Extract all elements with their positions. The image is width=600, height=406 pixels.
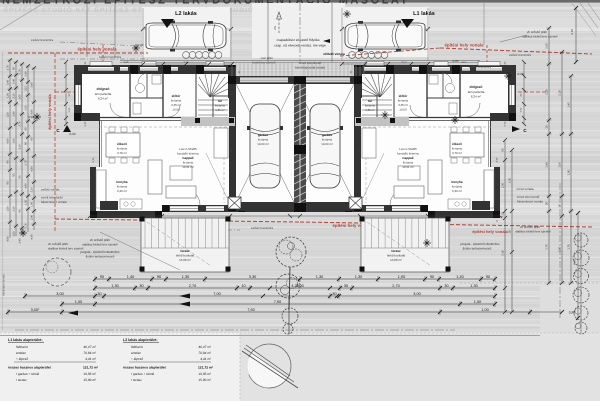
left vertical dimension lines <box>7 58 37 243</box>
svg-text:19,35 m²: 19,35 m² <box>83 372 96 376</box>
svg-text:1,50: 1,50 <box>13 231 16 237</box>
svg-text:15,00 m²: 15,00 m² <box>390 258 402 262</box>
right dim column near building <box>501 138 515 314</box>
north orientation symbol <box>242 344 298 388</box>
driveway paving hatch right <box>304 62 364 76</box>
bottom dimension row 1 <box>93 275 497 282</box>
svg-text:1,30: 1,30 <box>316 275 323 279</box>
svg-text:9,78 m²: 9,78 m² <box>452 151 462 155</box>
right vertical dimension lines <box>545 26 574 285</box>
pavement edge line <box>120 60 480 62</box>
svg-text:1,00: 1,00 <box>13 138 16 144</box>
svg-text:...kert pillér: ...kert pillér <box>259 56 273 60</box>
svg-text:falszerkezet vonala: falszerkezet vonala <box>517 200 543 204</box>
svg-text:1,35 m²: 1,35 m² <box>215 108 225 112</box>
svg-text:30: 30 <box>444 284 448 288</box>
svg-text:30: 30 <box>332 292 336 296</box>
svg-text:esővíz levezetés: esővíz levezetés <box>31 38 54 42</box>
car in garage L2 <box>247 104 283 188</box>
svg-text:építési hely vonala: építési hely vonala <box>444 43 484 48</box>
svg-text:6,36 m²: 6,36 m² <box>117 189 127 193</box>
svg-text:-0,20: -0,20 <box>517 72 524 76</box>
svg-text:• garázs + tároló: • garázs + tároló <box>131 372 154 376</box>
leader line bottom <box>100 232 180 270</box>
svg-text:46,47 m²: 46,47 m² <box>83 345 97 349</box>
svg-text:3,00: 3,00 <box>56 292 63 296</box>
svg-text:1,00: 1,00 <box>31 201 34 207</box>
svg-text:garázs: garázs <box>322 133 332 137</box>
svg-text:4,90: 4,90 <box>7 236 10 242</box>
svg-text:4,90: 4,90 <box>31 109 34 115</box>
svg-text:2,40: 2,40 <box>25 71 28 77</box>
hedge right edge <box>573 233 589 334</box>
svg-text:19,35 m²: 19,35 m² <box>198 372 211 376</box>
svg-text:90: 90 <box>486 275 490 279</box>
svg-text:1,40: 1,40 <box>127 275 134 279</box>
svg-text:2,10: 2,10 <box>401 61 406 64</box>
building site line top-right red dashed <box>340 48 440 56</box>
svg-text:csapadékvíz elvezető fólyóka: csapadékvíz elvezető fólyóka <box>277 38 320 42</box>
svg-text:1,30: 1,30 <box>111 284 118 288</box>
plot boundary line <box>86 3 88 57</box>
svg-text:1,50: 1,50 <box>508 177 512 183</box>
svg-text:1,50: 1,50 <box>68 107 71 112</box>
svg-text:7,00: 7,00 <box>213 292 220 296</box>
svg-text:lakáselválasztó fal: lakáselválasztó fal <box>290 164 293 185</box>
svg-text:2,76: 2,76 <box>7 65 10 71</box>
svg-text:90: 90 <box>430 275 434 279</box>
svg-text:földszint: földszint <box>131 345 143 349</box>
center plot dash-dot line <box>299 3 301 62</box>
svg-text:7,60: 7,60 <box>274 300 281 304</box>
scan artifact line <box>0 335 540 337</box>
svg-text:4,90: 4,90 <box>31 166 34 172</box>
svg-text:statikus kiviteli terv szerint: statikus kiviteli terv szerint! <box>48 247 84 251</box>
svg-text:kerámia: kerámia <box>258 138 269 142</box>
svg-text:3,00: 3,00 <box>296 284 303 288</box>
svg-text:1,66: 1,66 <box>461 61 466 64</box>
svg-text:nappali: nappali <box>402 156 413 160</box>
building site line (építési hely vonala) top-left red dashed <box>8 52 148 54</box>
svg-text:7,02: 7,02 <box>501 211 505 217</box>
svg-text:±0,00: ±0,00 <box>172 108 180 112</box>
svg-text:2%: 2% <box>273 25 277 30</box>
svg-text:2,40: 2,40 <box>19 238 22 244</box>
svg-text:30: 30 <box>508 230 512 234</box>
unit L1 floor area (white, mirrored) <box>290 65 516 218</box>
svg-text:19,91 m²: 19,91 m² <box>402 165 413 169</box>
svg-text:1,60: 1,60 <box>558 162 562 168</box>
svg-text:terasz: terasz <box>180 249 190 253</box>
svg-text:statikus kiviteli terv szerint: statikus kiviteli terv szerint! <box>515 230 551 234</box>
svg-text:kerámia: kerámia <box>403 161 414 165</box>
section marker C right <box>512 126 520 132</box>
parking bay dimension line L2 <box>143 28 231 30</box>
svg-text:konyha: konyha <box>116 180 127 184</box>
svg-text:2,70: 2,70 <box>189 284 196 288</box>
svg-text:kerámia: kerámia <box>183 161 194 165</box>
svg-text:kandalló kémény: kandalló kémény <box>397 152 419 156</box>
white utility strip <box>252 3 345 58</box>
svg-text:2,10: 2,10 <box>84 121 87 126</box>
svg-text:1,30: 1,30 <box>182 275 189 279</box>
svg-text:lam parketta: lam parketta <box>95 92 112 96</box>
svg-text:vb erősítő pillér: vb erősítő pillér <box>90 238 110 242</box>
svg-text:előtér: előtér <box>399 94 408 98</box>
svg-text:19,00 m²: 19,00 m² <box>321 142 332 146</box>
svg-text:2,76: 2,76 <box>19 121 22 127</box>
svg-text:3,10: 3,10 <box>25 85 28 91</box>
svg-text:vb erősítő pillér: vb erősítő pillér <box>48 242 68 246</box>
svg-text:(külön tartószerkezet): (külön tartószerkezet) <box>463 247 492 251</box>
svg-text:30: 30 <box>97 292 101 296</box>
slope arrow 2% <box>278 16 280 33</box>
svg-text:1,00: 1,00 <box>25 199 28 205</box>
plot boundary line <box>114 3 116 57</box>
svg-text:földszint: földszint <box>16 345 28 349</box>
svg-text:1,50: 1,50 <box>501 182 505 188</box>
chimney block L1 <box>349 197 362 209</box>
svg-text:19,91 m²: 19,91 m² <box>182 165 193 169</box>
svg-text:30: 30 <box>139 284 143 288</box>
svg-text:2,76: 2,76 <box>25 223 28 229</box>
svg-text:6,24 m²: 6,24 m² <box>98 97 108 101</box>
svg-text:1,40: 1,40 <box>456 275 463 279</box>
parking bay dimension line L1 <box>342 28 428 30</box>
svg-text:2,65: 2,65 <box>545 43 549 49</box>
svg-text:esővíz levezetés: esővíz levezetés <box>509 53 532 57</box>
svg-text:2,40: 2,40 <box>13 78 16 84</box>
svg-text:kerámia: kerámia <box>171 99 182 103</box>
svg-text:előtető vonala: előtető vonala <box>323 52 345 56</box>
svg-text:3,10: 3,10 <box>13 206 16 212</box>
svg-text:2,40: 2,40 <box>31 82 34 88</box>
svg-text:dolgozó: dolgozó <box>470 85 483 89</box>
4,10 dimension top right <box>575 8 577 62</box>
tree chain center <box>276 237 306 334</box>
svg-text:4,41 m²: 4,41 m² <box>85 357 97 361</box>
terrace L1 with pergola <box>360 217 451 273</box>
building site line bottom red dashed <box>55 219 300 222</box>
svg-text:8,40: 8,40 <box>573 259 577 265</box>
svg-text:eresz vonala: eresz vonala <box>516 187 533 191</box>
svg-text:kerámia: kerámia <box>452 185 463 189</box>
svg-text:2,76: 2,76 <box>25 160 28 166</box>
svg-text:L2 lakás: L2 lakás <box>175 10 197 17</box>
svg-text:10: 10 <box>241 284 245 288</box>
svg-text:3,15: 3,15 <box>92 157 95 162</box>
svg-text:térkő burkolat: térkő burkolat <box>387 254 405 258</box>
hedge circles left <box>183 52 222 59</box>
bottom dimension 5,88 <box>530 311 562 313</box>
svg-text:1,00: 1,00 <box>481 308 488 312</box>
svg-text:1,60: 1,60 <box>558 246 562 252</box>
svg-text:építési hely vonala: építési hely vonala <box>47 93 52 129</box>
svg-text:pergola - épületről elkülönítv: pergola - épületről elkülönítve <box>460 242 500 246</box>
svg-text:2,40: 2,40 <box>31 214 34 220</box>
svg-text:2,18: 2,18 <box>558 90 562 96</box>
svg-text:4,10: 4,10 <box>570 29 574 35</box>
car in parking bay L2 <box>146 21 226 52</box>
svg-text:70,84 m²: 70,84 m² <box>83 351 97 355</box>
svg-text:1,66: 1,66 <box>124 61 129 64</box>
svg-text:6,36 m²: 6,36 m² <box>452 189 462 193</box>
unit L1 walls and fittings (mirrored) <box>284 60 526 218</box>
section marker C left <box>63 125 71 132</box>
sheet border left <box>2 52 4 330</box>
svg-text:kerámia: kerámia <box>117 185 128 189</box>
svg-text:4,41 m²: 4,41 m² <box>200 357 212 361</box>
svg-text:3,00: 3,00 <box>413 292 420 296</box>
svg-text:L1 lakás: L1 lakás <box>413 10 435 17</box>
svg-text:1,00: 1,00 <box>474 300 481 304</box>
svg-text:étkező: étkező <box>452 142 462 146</box>
svg-text:1,70: 1,70 <box>567 244 571 250</box>
driveway paving hatch left <box>232 62 292 76</box>
svg-text:emelet: emelet <box>131 351 141 355</box>
svg-text:lam parketta: lam parketta <box>468 90 485 94</box>
svg-text:emelt betonfordó: emelt betonfordó <box>299 61 322 65</box>
legend table L1 <box>8 338 99 382</box>
svg-text:1,50: 1,50 <box>519 107 522 112</box>
white legend area bottom-left <box>0 333 240 401</box>
svg-text:4,90: 4,90 <box>7 138 10 144</box>
svg-text:121,72 m²: 121,72 m² <box>83 366 99 370</box>
svg-text:terasz: terasz <box>391 249 401 253</box>
hedge circles right <box>349 52 388 59</box>
svg-text:kerámia: kerámia <box>452 147 463 151</box>
svg-text:kerámia: kerámia <box>398 99 409 103</box>
arrow on bottom row <box>68 311 78 316</box>
bottom dimension row 3 <box>23 292 497 299</box>
svg-text:kerámia: kerámia <box>365 104 375 108</box>
sheet corner diagonal <box>0 3 44 30</box>
white parking bay L2 <box>142 7 230 57</box>
dashed border of legend area <box>0 332 600 334</box>
svg-text:összes hasznos alapterület: összes hasznos alapterület <box>8 366 52 370</box>
survey point markers <box>132 44 140 52</box>
svg-text:1,50: 1,50 <box>7 112 10 118</box>
svg-text:±0,00: ±0,00 <box>399 108 407 112</box>
flat gray bottom band <box>0 333 600 401</box>
plot line right <box>483 3 485 45</box>
svg-text:2,40: 2,40 <box>13 111 16 117</box>
extra center ticks row2 <box>268 286 272 290</box>
svg-text:dolgozó: dolgozó <box>97 87 110 91</box>
svg-text:(külön tartószerkezet): (külön tartószerkezet) <box>86 255 115 259</box>
svg-text:vb erősítő pillér: vb erősítő pillér <box>527 30 547 34</box>
svg-text:90: 90 <box>100 275 104 279</box>
long right boundary lines <box>559 183 561 318</box>
filled arrow on dim row <box>179 294 190 299</box>
svg-text:4,90: 4,90 <box>25 183 28 189</box>
car in parking bay L1 <box>345 21 425 52</box>
svg-text:1,00: 1,00 <box>19 94 22 100</box>
svg-text:• terasz: • terasz <box>16 378 27 382</box>
svg-text:1,80: 1,80 <box>357 147 360 152</box>
svg-text:L1 lakás alapterület:: L1 lakás alapterület: <box>8 338 43 342</box>
svg-text:3,45 m²: 3,45 m² <box>171 103 181 107</box>
center utility column line <box>331 3 333 62</box>
bottom dimension row 2 <box>93 284 497 291</box>
unit L2 floor area (white) <box>74 65 196 121</box>
svg-text:konyha: konyha <box>451 180 462 184</box>
svg-text:3,10: 3,10 <box>13 93 16 99</box>
svg-text:-0,20: -0,20 <box>69 132 76 136</box>
svg-text:esővíz levezetés: esővíz levezetés <box>251 226 274 230</box>
bush bottom left <box>43 258 71 286</box>
svg-text:15,00 m²: 15,00 m² <box>179 258 191 262</box>
svg-text:3,10: 3,10 <box>31 187 34 193</box>
front garden red dashed segments <box>55 91 82 93</box>
svg-text:építési hely vonala: építési hely vonala <box>77 47 117 52</box>
svg-text:statikus kiviteli terv szerint: statikus kiviteli terv szerint! <box>82 243 118 247</box>
svg-text:1,70: 1,70 <box>545 244 549 250</box>
svg-text:1,50: 1,50 <box>7 206 10 212</box>
svg-text:121,72 m²: 121,72 m² <box>198 366 214 370</box>
svg-text:építési hely vonala: építési hely vonala <box>472 229 508 234</box>
party wall between units <box>294 76 306 212</box>
center utility column line <box>267 3 269 62</box>
svg-text:2,18: 2,18 <box>501 250 505 256</box>
svg-text:• terasz: • terasz <box>131 378 142 382</box>
svg-text:emelt tehervördő: emelt tehervördő <box>517 195 540 199</box>
svg-text:3,00*: 3,00* <box>31 308 40 312</box>
bottom dimension row 5 <box>6 308 532 315</box>
svg-text:6,24 m²: 6,24 m² <box>471 95 481 99</box>
svg-text:kerámia: kerámia <box>215 104 225 108</box>
svg-text:2,10: 2,10 <box>503 121 506 126</box>
svg-text:10: 10 <box>545 125 549 129</box>
dark top sheet edge <box>0 0 600 3</box>
svg-text:1,60: 1,60 <box>398 275 405 279</box>
svg-text:kerámia: kerámia <box>117 147 128 151</box>
red dashed vertical at SE corner <box>496 180 498 222</box>
svg-text:telekhatár vonala: telekhatár vonala <box>2 274 6 296</box>
svg-text:15,00 m²: 15,00 m² <box>83 378 96 382</box>
svg-text:1,90: 1,90 <box>567 169 571 175</box>
svg-text:nappali: nappali <box>182 156 193 160</box>
slope hatch top-right corner <box>580 3 598 28</box>
svg-text:• garázs + tároló: • garázs + tároló <box>16 372 39 376</box>
svg-text:+ lépcső: + lépcső <box>131 357 143 361</box>
svg-text:emelet: emelet <box>16 351 26 355</box>
svg-text:2,30: 2,30 <box>545 89 549 95</box>
svg-text:betonkapcsolat vonala: betonkapcsolat vonala <box>295 66 325 70</box>
svg-text:kerámia: kerámia <box>322 138 333 142</box>
svg-text:Leier LSK285: Leier LSK285 <box>399 147 417 151</box>
svg-text:3,45 m²: 3,45 m² <box>398 103 408 107</box>
svg-text:1,35 m²: 1,35 m² <box>365 108 375 112</box>
chimney block L2 <box>228 197 241 209</box>
svg-text:19,00 m²: 19,00 m² <box>257 142 268 146</box>
svg-text:+ lépcső: + lépcső <box>16 357 28 361</box>
svg-text:esővíz levezetés: esővíz levezetés <box>99 55 122 59</box>
svg-text:1,30: 1,30 <box>355 275 362 279</box>
flat gray lower-right region <box>540 282 600 335</box>
svg-text:90: 90 <box>501 148 505 152</box>
svg-text:esővíz vonala: esővíz vonala <box>41 188 60 192</box>
parking bay divider lines <box>142 8 144 60</box>
unit L2 walls and fittings <box>64 60 306 218</box>
svg-text:15,00 m²: 15,00 m² <box>198 378 211 382</box>
svg-text:térkő burkolat: térkő burkolat <box>176 254 194 258</box>
svg-text:1,45: 1,45 <box>567 102 571 108</box>
svg-text:90: 90 <box>157 275 161 279</box>
svg-text:3,30: 3,30 <box>249 275 256 279</box>
svg-text:statikus kiviteli terv szerint: statikus kiviteli terv szerint! <box>522 35 558 39</box>
svg-text:1,30: 1,30 <box>470 284 477 288</box>
svg-text:2,70: 2,70 <box>392 284 399 288</box>
dash-dot boundary above legend <box>15 329 455 331</box>
svg-text:70,84 m²: 70,84 m² <box>198 351 212 355</box>
svg-text:L2 lakás alapterület:: L2 lakás alapterület: <box>123 338 158 342</box>
terrace L2 with pergola <box>140 217 231 273</box>
red dashed vertical left <box>54 53 56 232</box>
roof drain red dashed right <box>486 45 488 67</box>
svg-text:esővíz levezetés: esővíz levezetés <box>469 65 492 69</box>
svg-text:1,50: 1,50 <box>25 105 28 111</box>
svg-text:1,50: 1,50 <box>7 92 10 98</box>
svg-text:vb erősítő pillér: vb erősítő pillér <box>520 225 540 229</box>
svg-text:garázs: garázs <box>258 133 268 137</box>
svg-text:1,48: 1,48 <box>545 162 549 168</box>
svg-text:NEMZETKÖZI ÉPÍTÉSZ TERVDOKUMEN: NEMZETKÖZI ÉPÍTÉSZ TERVDOKUMENTÁCIÓ MÁSO… <box>2 0 410 6</box>
small arrow marker <box>323 39 330 43</box>
svg-text:2,40: 2,40 <box>7 79 10 85</box>
svg-text:összes hasznos alapterület: összes hasznos alapterület <box>123 366 167 370</box>
svg-text:-0,20: -0,20 <box>452 59 459 63</box>
svg-text:előtér: előtér <box>172 94 181 98</box>
svg-text:3,10: 3,10 <box>19 144 22 150</box>
arrow marker L1 <box>401 19 414 28</box>
svg-text:kandalló kémény: kandalló kémény <box>177 152 199 156</box>
svg-text:7,60: 7,60 <box>247 308 254 312</box>
svg-text:5,88: 5,88 <box>569 311 576 315</box>
legend table L2 <box>123 338 214 382</box>
top dimension marks <box>141 62 430 66</box>
svg-text:9,78 m²: 9,78 m² <box>117 151 127 155</box>
svg-text:emelt teherfordó: emelt teherfordó <box>41 196 63 200</box>
car in garage L1 <box>307 104 343 188</box>
svg-text:2,76: 2,76 <box>19 69 22 75</box>
svg-text:46,47 m²: 46,47 m² <box>198 345 212 349</box>
svg-text:10: 10 <box>558 204 562 208</box>
svg-text:étkező: étkező <box>117 142 127 146</box>
svg-text:30: 30 <box>344 284 348 288</box>
svg-text:Leier LSK285: Leier LSK285 <box>179 147 197 151</box>
roof drain red dashed left <box>102 45 104 67</box>
svg-text:4,90: 4,90 <box>31 234 34 240</box>
white parking bay L1 <box>341 7 429 57</box>
arrow marker L2 <box>161 19 174 28</box>
svg-text:1,80: 1,80 <box>230 147 233 152</box>
svg-text:30: 30 <box>545 202 549 206</box>
svg-text:pergola - épületről elkülönítv: pergola - épületről elkülönítve <box>80 250 120 254</box>
svg-text:3,15: 3,15 <box>495 157 498 162</box>
svg-text:falszerkezet vonala: falszerkezet vonala <box>41 200 67 204</box>
bottom dimension row 4 <box>60 300 497 307</box>
svg-text:1,00: 1,00 <box>75 300 82 304</box>
